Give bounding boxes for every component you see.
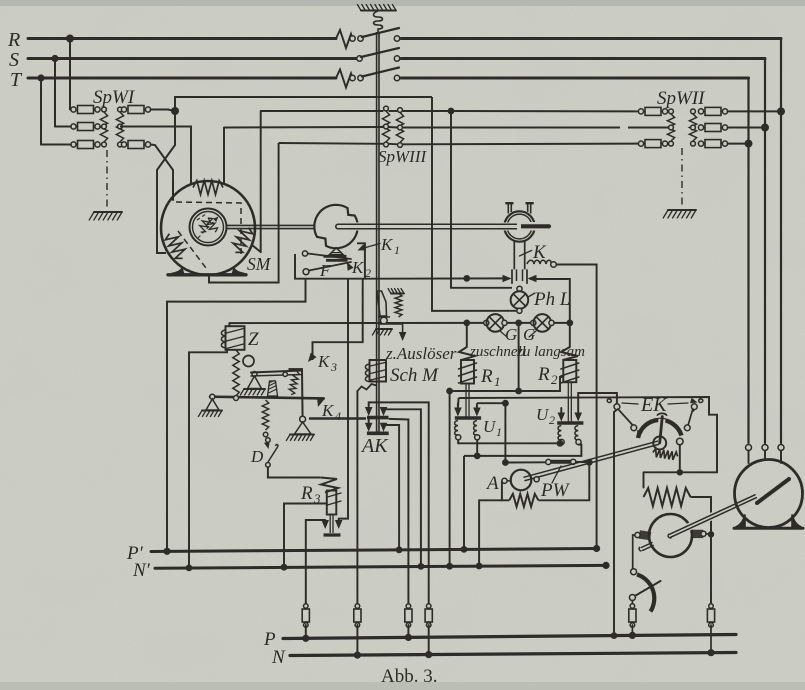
beam pivot left	[210, 394, 215, 399]
wire RM left terminal down	[633, 535, 635, 569]
svg-text:D: D	[250, 447, 264, 466]
SpWII fuse row1 left	[638, 109, 643, 114]
A shaft to EK	[600, 445, 650, 459]
machine RM body	[649, 514, 692, 557]
M1 shaft to K	[348, 223, 373, 231]
wire EK contact down	[679, 445, 681, 473]
machine HM body	[735, 460, 803, 528]
SpWI earth dash-dot	[106, 150, 108, 210]
switch D blade	[264, 442, 270, 450]
EK right hook contact	[699, 397, 703, 403]
machine HM feeds	[747, 144, 749, 443]
svg-text:N: N	[271, 647, 286, 668]
switch D top contact	[266, 438, 271, 443]
node phase a	[448, 108, 455, 115]
motor SM rotor circles	[190, 209, 227, 246]
SpWII fuse row1 right	[698, 109, 703, 114]
trip ground hatch	[376, 328, 392, 330]
contact F lever top	[302, 251, 307, 256]
wire U1 right arrow to node	[477, 402, 506, 404]
wire phase a branch down (to K contact)	[451, 111, 512, 288]
wire phase b (y127.5)	[224, 126, 383, 129]
fuse to P right (brush)	[630, 604, 635, 609]
U1 coil left	[455, 421, 458, 436]
wire T down right	[747, 78, 749, 144]
wire T bus left	[28, 77, 336, 80]
M1 brush cone	[330, 248, 344, 255]
wire W1 node to N-prime	[449, 391, 451, 566]
PhL label tick	[528, 293, 535, 297]
svg-text:AK: AK	[360, 435, 389, 457]
fuse wires to rails	[305, 625, 307, 638]
wire PW to loop	[576, 461, 589, 464]
K shaft bar	[524, 222, 548, 231]
R3 left arrow feed to fuse1	[306, 520, 325, 606]
iron wedge	[268, 381, 278, 396]
relay box F outline	[295, 243, 365, 278]
fuse to N right (RM)	[709, 604, 714, 609]
motor SM stator circle	[161, 181, 255, 275]
switch contacts T	[350, 75, 355, 80]
node Pp x167	[163, 548, 170, 555]
node y456	[474, 453, 481, 460]
SM rotor winding marks	[204, 216, 219, 234]
node SpWI out	[171, 107, 179, 115]
bus U coils outer (y456)	[476, 440, 478, 456]
wire SpWII row3 to T drop	[728, 143, 749, 145]
Z plunger spring	[233, 350, 239, 396]
K pillar	[513, 242, 515, 270]
node EKleft-P	[611, 632, 618, 639]
beam center spring down	[262, 400, 268, 430]
wire S bus right	[401, 57, 765, 60]
wire W2 EK bus	[459, 397, 717, 472]
U1 coil right	[474, 421, 477, 436]
wire phase a drop to SM	[260, 111, 262, 252]
wire S bus left	[28, 57, 356, 60]
node R3-Nprime	[281, 564, 288, 571]
svg-text:R: R	[480, 366, 493, 387]
wire phase a (y111)	[261, 110, 384, 112]
SpWIII coil 2	[398, 108, 403, 113]
wire T tap to row3	[41, 144, 71, 146]
node RMfuse-N	[707, 649, 714, 656]
switch contacts S	[357, 56, 362, 61]
wire PhL bottom to SpWI out	[432, 97, 517, 311]
AK bar2 arrows	[365, 423, 373, 432]
PW label tick	[552, 466, 561, 483]
node x505 bottom	[502, 459, 509, 466]
lamp G left	[484, 320, 489, 325]
wire D to R3	[268, 467, 321, 477]
A left terminal	[502, 478, 507, 483]
coil SchM	[370, 360, 387, 382]
node W1 left	[446, 388, 453, 395]
SpWI secondary coil	[118, 107, 123, 112]
trip spring	[395, 294, 402, 318]
main beam	[210, 397, 324, 399]
wire R down right	[780, 39, 782, 112]
wire PW bus (y462.5)	[505, 461, 546, 463]
R3 arrows	[321, 520, 329, 529]
bell crank stand	[295, 422, 312, 434]
svg-text:SpWIII: SpWIII	[378, 147, 427, 166]
brush gear bottom contact	[629, 595, 635, 601]
fuse to P rail 1	[304, 604, 309, 609]
switch return spring	[374, 11, 383, 32]
AK bar1 arrows	[365, 407, 373, 416]
knife blade R	[362, 28, 399, 37]
svg-text:G: G	[505, 325, 517, 344]
K4 arrowhead	[317, 397, 324, 407]
svg-text:Abb. 3.: Abb. 3.	[381, 666, 437, 687]
K label tick	[519, 250, 531, 256]
potentiometer PW element	[546, 459, 551, 464]
K contact right arrow	[528, 275, 537, 283]
left stand	[206, 399, 219, 410]
svg-text:F: F	[319, 261, 331, 280]
R3 tap to N-prime	[284, 504, 327, 568]
svg-text:R: R	[537, 364, 550, 385]
rail N-prime	[155, 565, 606, 568]
svg-text:K: K	[317, 352, 331, 371]
rail N	[290, 653, 736, 656]
resistor R1	[466, 323, 468, 347]
fuse to N rail 4	[426, 604, 431, 609]
AK crossbar 1	[367, 416, 389, 420]
HM rotor slash	[757, 479, 789, 503]
contact U1 bar	[455, 416, 481, 419]
SpWI fuse row3 right	[121, 142, 126, 147]
AK bar2 left feed	[368, 420, 370, 425]
rail P-prime	[151, 549, 597, 552]
SpWII earth dash-dot	[681, 148, 683, 205]
svg-text:S: S	[9, 49, 19, 71]
wire T bus right	[401, 77, 749, 80]
contact U2 bar	[557, 421, 583, 424]
brush gear arc	[637, 575, 654, 612]
svg-text:K: K	[380, 235, 394, 254]
RM left terminal	[640, 531, 651, 539]
SpWI fuse row1 right	[121, 107, 126, 112]
svg-text:2: 2	[549, 413, 555, 427]
Z bottom-left wire to N-prime	[189, 350, 227, 568]
node Pp x596	[593, 545, 600, 552]
U2 arrow feeds	[560, 408, 562, 413]
wire F box to K contact (y278.4)	[365, 277, 503, 279]
SpWII fuse row3 left	[638, 141, 643, 146]
SM winding top	[193, 181, 223, 195]
U1 arrows	[454, 408, 462, 417]
wire F box to K3	[313, 279, 363, 360]
node Z-Nprime	[186, 565, 193, 572]
SpWII fuse row2 right	[698, 125, 703, 130]
svg-text:EK: EK	[640, 394, 668, 416]
K2 pointer	[347, 262, 354, 271]
switch D bottom contact	[266, 463, 271, 468]
trip arrow to Ausloeser	[402, 324, 404, 336]
SpWI ground	[94, 211, 122, 213]
HM terminal right	[778, 445, 784, 451]
wire SpWII row1 to R drop	[728, 110, 781, 112]
node loop N-prime	[476, 563, 483, 570]
rail P	[283, 635, 736, 639]
wire SpWI out down (X cross)	[157, 111, 175, 253]
wire rheostat to machine RM	[691, 497, 712, 532]
EK label ticks	[622, 403, 638, 404]
svg-text:T: T	[10, 69, 23, 91]
wire U1 left arrow up	[457, 398, 460, 408]
node brushfuse-P	[629, 632, 636, 639]
wire K bottom contact	[517, 286, 522, 291]
resistor R3 zigzag top	[321, 478, 338, 493]
SpWIII coil 1	[384, 106, 389, 111]
wire SpWI row2 out	[120, 127, 191, 186]
rod flexible lead	[357, 384, 376, 391]
fuse to N rail 2	[355, 604, 360, 609]
wire EK to U2 arrow	[578, 393, 617, 404]
svg-text:N′: N′	[132, 560, 151, 581]
wire S tap down	[54, 59, 56, 127]
SpWI fuse row3 left	[71, 142, 76, 147]
node AK1-Nprime	[418, 563, 425, 570]
HM terminal left	[746, 445, 752, 451]
svg-text:4: 4	[335, 409, 341, 423]
lamp G right	[531, 320, 536, 325]
EK pointer arm	[660, 419, 662, 437]
SM rotor dashed arrow	[198, 219, 216, 238]
wire loop left down to N-prime	[479, 500, 502, 566]
R2 plunger	[567, 382, 569, 421]
R3 body	[327, 491, 337, 515]
SM dashed linkage	[176, 202, 241, 255]
svg-text:SM: SM	[247, 254, 272, 274]
R3 plunger T-bar	[324, 533, 341, 536]
node fuse4-N	[425, 651, 432, 658]
SpWI primary coil	[102, 107, 107, 112]
EK right strut	[688, 409, 693, 426]
AK bar1 left feed	[369, 402, 429, 606]
wire K coil to P-prime	[556, 265, 596, 549]
wire EK left hook to P line	[614, 410, 617, 636]
bell crank pivot	[300, 416, 306, 422]
wire F box to P-prime	[167, 279, 306, 552]
bus U coils inner (y443)	[458, 440, 561, 445]
pilot machine M1 body	[314, 205, 357, 248]
node x449-Nprime	[446, 563, 453, 570]
flexible lead on T	[336, 70, 353, 88]
HM feet	[736, 515, 746, 528]
wire between G lamps	[507, 322, 530, 324]
node G left	[463, 320, 470, 327]
fuse to P rail 3	[406, 604, 411, 609]
EK spring	[652, 448, 678, 460]
node S tap	[51, 55, 58, 62]
contact K3 pad	[289, 368, 304, 371]
wire phase c (y143)	[279, 142, 384, 145]
U1 arrow feed wires	[457, 404, 459, 408]
K armature box	[512, 269, 527, 284]
wire SpWII row2 to S drop	[728, 127, 765, 129]
node fuse3-P	[405, 634, 412, 641]
K coil to right	[527, 260, 552, 264]
EK left hook contact	[607, 397, 611, 403]
SpWII secondary coil	[691, 109, 696, 114]
knife blade S	[361, 48, 399, 57]
node S drop	[761, 124, 769, 132]
wire SpWI row3 out (X cross)	[151, 145, 173, 201]
svg-text:U: U	[483, 417, 497, 436]
svg-text:G: G	[523, 325, 535, 344]
AK bar2 right feed	[384, 423, 400, 550]
svg-text:R: R	[7, 29, 20, 51]
wire SpWI out up-right	[175, 97, 432, 111]
trip spring anchor	[391, 293, 404, 295]
R3 right arrow feed	[338, 519, 340, 520]
K3 arrowhead	[308, 353, 317, 362]
svg-text:K: K	[532, 242, 547, 263]
AK crossbar 2	[367, 431, 389, 435]
SpWII primary coil	[669, 109, 674, 114]
wire G right to R2 branch	[554, 322, 570, 324]
svg-text:1: 1	[496, 425, 502, 439]
wire R bus left	[28, 37, 336, 40]
upper lever	[252, 372, 257, 377]
flexible lead on R	[336, 30, 353, 48]
RM right terminal	[693, 530, 703, 537]
K1 pointer	[362, 244, 380, 249]
contact F plates	[324, 255, 347, 258]
Z top wire	[228, 323, 230, 326]
node y456-Pprime	[461, 546, 468, 553]
node W1 G-branch	[515, 388, 522, 395]
Z armature ball	[243, 356, 254, 367]
svg-text:z.Auslöser: z.Auslöser	[385, 344, 457, 363]
relay Z coil	[226, 326, 245, 350]
K4 contact pad wire	[309, 417, 366, 420]
node fuse2-N	[354, 652, 361, 659]
svg-text:1: 1	[394, 243, 400, 257]
svg-text:Ph L: Ph L	[533, 289, 570, 310]
node EK contact W2	[677, 469, 683, 475]
brush gear top contact	[631, 569, 637, 575]
SpWII ground	[668, 209, 696, 211]
trip pivot	[380, 317, 387, 324]
SpWII fuse row3 right	[698, 141, 703, 146]
EK left strut	[618, 409, 633, 426]
wire phase c drop to SM brush	[209, 143, 279, 283]
SpWI fuse row1 left	[71, 107, 76, 112]
wire EK right hook stub	[693, 410, 695, 412]
svg-text:Sch M: Sch M	[390, 365, 439, 386]
AK bar1 right feed	[384, 407, 421, 566]
node PW right	[586, 459, 593, 466]
wire SpWI row1 out	[151, 109, 168, 111]
wire K right contact down	[530, 279, 570, 323]
node fuse1-P	[302, 635, 309, 642]
EK moving contact	[677, 438, 684, 445]
contact F lever bottom	[303, 269, 309, 275]
lamp PhL	[511, 291, 529, 309]
trip pawl	[377, 291, 387, 316]
node Np right end	[602, 562, 609, 569]
wire SM feed left1	[172, 182, 174, 200]
U2 arrows	[558, 413, 566, 422]
wire AK bar1 to fuse3	[389, 419, 409, 606]
node T tap	[37, 74, 44, 81]
svg-text:1: 1	[494, 374, 501, 389]
wire S down right	[764, 59, 766, 128]
node y443	[557, 440, 564, 447]
wire RM right to fuse	[710, 534, 712, 606]
switch anchor hatching	[361, 10, 396, 12]
right link bar	[301, 371, 304, 420]
R1 plunger	[465, 384, 467, 417]
svg-text:SpWII: SpWII	[657, 88, 706, 109]
motor A body	[511, 470, 532, 491]
resistor R2	[569, 323, 571, 347]
wire F box to R3	[339, 279, 348, 519]
node AK2-Pprime	[396, 546, 403, 553]
svg-text:Z: Z	[248, 329, 259, 350]
R3 plunger	[329, 515, 331, 534]
K contact left arrow	[503, 275, 512, 283]
node T drop	[745, 140, 753, 148]
node G right	[566, 320, 573, 327]
SM shaft	[226, 224, 315, 226]
upper lever stand	[248, 376, 262, 389]
switch rod	[376, 32, 378, 434]
wire G row left (to relay Z)	[229, 322, 483, 324]
svg-text:3: 3	[330, 360, 337, 374]
wire brush to fuse	[631, 601, 633, 607]
svg-text:A: A	[485, 473, 499, 494]
U2 coil right	[575, 426, 578, 441]
SM winding left	[164, 231, 189, 262]
svg-text:K: K	[321, 401, 335, 420]
svg-text:2: 2	[551, 372, 558, 387]
node between G	[515, 320, 522, 327]
node y278 branch	[463, 275, 470, 282]
wire S tap to row2	[55, 126, 71, 128]
R2 tap wire	[521, 377, 563, 391]
lever spring	[288, 371, 300, 396]
wire R bus right	[401, 37, 781, 40]
switch contacts R	[350, 36, 355, 41]
brush gear slash	[631, 581, 661, 599]
K fork prongs	[508, 204, 511, 214]
field rheostat zigzag	[644, 488, 691, 506]
EK rotor	[653, 437, 666, 450]
SM base feet	[172, 269, 184, 274]
node x505 top	[502, 400, 509, 407]
armature loop resistor	[502, 481, 509, 501]
HM terminal mid	[762, 445, 768, 451]
beam pivot mid	[234, 396, 239, 401]
SM winding right	[230, 225, 255, 256]
node R drop	[777, 107, 785, 115]
EK sector arc	[638, 420, 682, 438]
wire x505 down	[504, 403, 506, 462]
relay K yoke	[504, 211, 534, 241]
node RM right	[708, 531, 714, 537]
svg-text:U: U	[536, 405, 550, 424]
wire T tap down	[40, 78, 42, 145]
U2 coil left	[558, 426, 561, 441]
wire phase b drop to SM	[223, 128, 225, 185]
wire down to field rheostat	[643, 472, 645, 487]
wire y456 to P-prime	[463, 456, 465, 550]
